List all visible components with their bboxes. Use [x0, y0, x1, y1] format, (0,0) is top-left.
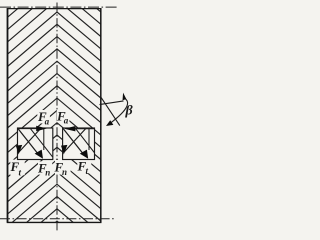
right box secondary diagonal	[76, 129, 95, 153]
bottom horizontal dash-dot axis line	[0, 218, 115, 220]
right box inner vertical line	[88, 129, 90, 150]
top horizontal dash-dot axis line	[0, 6, 119, 8]
right box Fa arrow along top (pointing left)	[75, 128, 94, 130]
plate bottom edge	[7, 221, 102, 223]
beta annotation: curved double arrow arc	[108, 98, 128, 125]
left box steep diagonal Fn arrow	[18, 129, 39, 155]
svg-text:n: n	[45, 168, 50, 178]
vertical dash-dot centerline	[56, 3, 58, 232]
svg-text:n: n	[62, 167, 67, 177]
plate left border	[7, 8, 9, 222]
white halo for right Fn label	[55, 160, 71, 175]
left box Ft arrowhead on left edge	[16, 145, 22, 155]
white halo for left Fa label	[37, 110, 50, 123]
right box Fn arrowhead on left edge	[61, 145, 67, 155]
beta annotation: shallow helix line	[100, 101, 124, 105]
left force box (white)	[18, 128, 53, 160]
white halo for left Ft label	[10, 160, 24, 176]
white halo for right Ft label	[77, 159, 91, 173]
white halo for left Fn label	[38, 161, 52, 174]
right box anti-diagonal	[64, 129, 86, 153]
arc top arrowhead	[123, 93, 127, 101]
svg-text:a: a	[64, 116, 69, 126]
plate top edge	[7, 8, 102, 10]
right box Ft arrowhead	[80, 150, 88, 159]
right box steep diagonal Ft arrow	[63, 129, 83, 155]
left box anti-diagonal	[18, 129, 40, 153]
arc bottom arrowhead	[106, 120, 113, 126]
white halo for right Fa label	[57, 110, 70, 123]
left box secondary diagonal	[30, 129, 52, 157]
plate right border	[100, 8, 102, 222]
svg-text:β: β	[125, 104, 134, 119]
right force box (white)	[63, 128, 95, 160]
svg-text:a: a	[45, 117, 50, 127]
left box Fn arrowhead	[35, 150, 43, 159]
herringbone hatching of plate	[8, 0, 101, 240]
beta annotation: steep flank line	[101, 97, 120, 125]
left box inner vertical line	[43, 129, 45, 150]
left box Fa arrow along top	[18, 128, 38, 130]
